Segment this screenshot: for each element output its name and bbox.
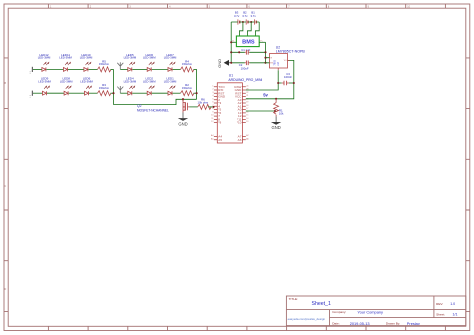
svg-text:VO: VO <box>284 60 287 62</box>
U1 left pin numbers <box>211 85 214 140</box>
svg-text:LED-3MM: LED-3MM <box>124 79 137 83</box>
svg-text:150ohm: 150ohm <box>99 86 110 90</box>
title block <box>286 296 465 326</box>
wire battery row <box>231 21 259 23</box>
svg-text:Your Company: Your Company <box>357 309 383 314</box>
wire <box>47 92 64 94</box>
wire 5v rail <box>246 60 294 98</box>
svg-text:D: D <box>5 288 7 291</box>
junction at pin <box>213 106 215 108</box>
U1 right pin labels <box>234 85 242 142</box>
svg-text:100uF: 100uF <box>241 66 249 70</box>
resistor R2 <box>181 91 195 96</box>
svg-text:TITLE:: TITLE: <box>289 297 298 301</box>
wire <box>152 68 168 70</box>
BMS pin B- <box>231 41 236 43</box>
wire <box>68 68 84 70</box>
resistor R1 <box>274 99 279 117</box>
svg-text:Preslav: Preslav <box>407 321 420 326</box>
svg-text:Company:: Company: <box>332 310 346 314</box>
svg-text:Date:: Date: <box>332 322 340 326</box>
svg-text:LED-3MM: LED-3MM <box>124 56 137 60</box>
U1 left pin labels <box>218 85 226 142</box>
ground flag left <box>217 59 231 68</box>
svg-text:B-: B- <box>232 41 234 43</box>
svg-text:1/1: 1/1 <box>453 312 458 316</box>
svg-text:150ohm: 150ohm <box>99 62 110 66</box>
wire battery minus down <box>230 22 232 63</box>
U1 left pins <box>214 87 217 140</box>
wire <box>289 82 294 84</box>
wire <box>111 68 114 70</box>
wire <box>208 106 214 108</box>
svg-text:LED-3MM: LED-3MM <box>80 79 93 83</box>
svg-text:MOSFET-NCHANNEL: MOSFET-NCHANNEL <box>137 109 169 113</box>
LED LED1 <box>168 86 175 96</box>
svg-text:LM: LM <box>277 62 280 65</box>
svg-text:A5: A5 <box>218 138 222 142</box>
battery B2 <box>246 19 248 24</box>
LED LED7 <box>168 62 175 72</box>
wire drain rail <box>114 99 197 104</box>
wire <box>152 92 168 94</box>
voltage regulator U2 <box>270 54 288 69</box>
svg-text:easyeda.com/preslav_design: easyeda.com/preslav_design <box>288 317 326 321</box>
junction <box>242 21 244 23</box>
junction <box>230 62 232 64</box>
junction <box>238 51 240 53</box>
U1 right pins <box>242 87 245 140</box>
svg-text:GND: GND <box>217 59 222 68</box>
junction <box>196 92 198 94</box>
resistor R4 <box>181 67 195 72</box>
wire U1 GND to U2 GND <box>246 70 278 90</box>
transistor Q2 <box>183 99 190 112</box>
LED LED12 <box>42 62 49 72</box>
battery B1 <box>255 19 257 24</box>
wire <box>69 92 85 94</box>
wire <box>231 51 265 53</box>
LED LED9 <box>43 86 50 96</box>
svg-text:LED-3MM: LED-3MM <box>143 79 156 83</box>
wire <box>132 68 147 70</box>
capacitor C2 <box>245 61 250 66</box>
svg-text:10k ohm: 10k ohm <box>198 100 209 104</box>
wire <box>111 92 114 94</box>
svg-text:LED-3MM: LED-3MM <box>143 56 156 60</box>
LED LED10 <box>84 62 91 72</box>
LED LED6 <box>147 62 154 72</box>
connector port <box>30 91 33 98</box>
junction <box>275 98 277 100</box>
junction <box>264 51 266 53</box>
LED LED5 <box>128 62 135 72</box>
svg-text:*9: *9 <box>218 121 221 125</box>
BMS module <box>236 36 259 47</box>
U1 right pin numbers <box>246 85 249 140</box>
capacitor C1 <box>245 50 250 55</box>
wire <box>278 82 282 84</box>
wire <box>132 92 147 94</box>
wire BMS out down <box>265 42 267 63</box>
svg-text:LED-3MM: LED-3MM <box>80 56 93 60</box>
battery B3 <box>238 19 240 24</box>
antenna net stub <box>117 86 123 93</box>
svg-text:LED-3MM: LED-3MM <box>164 56 177 60</box>
svg-text:ARDUINO_PRO_MINI: ARDUINO_PRO_MINI <box>228 78 262 82</box>
svg-text:Sheet_1: Sheet_1 <box>312 301 331 307</box>
svg-text:1.0: 1.0 <box>450 302 455 306</box>
svg-text:Sheet:: Sheet: <box>436 312 445 316</box>
svg-text:LED-3MM: LED-3MM <box>60 79 73 83</box>
junction <box>274 110 276 112</box>
resistor R3 <box>98 91 111 96</box>
svg-text:A6: A6 <box>238 138 242 142</box>
svg-text:3.7v: 3.7v <box>234 14 240 18</box>
U2 output pin <box>288 59 290 61</box>
capacitor C3 <box>282 81 289 85</box>
connector port <box>30 67 33 74</box>
junction <box>250 21 252 23</box>
wire <box>194 68 197 70</box>
LED LED2 <box>147 86 154 96</box>
svg-text:*10: *10 <box>237 121 242 125</box>
wire <box>173 68 181 70</box>
junction <box>293 82 295 84</box>
LED LED8 <box>64 86 71 96</box>
resistor R5 <box>98 67 111 72</box>
wire <box>173 92 181 94</box>
wire <box>46 68 63 70</box>
LED LED11 <box>64 62 71 72</box>
ground <box>271 116 281 130</box>
wire A0 to R1 <box>246 110 276 112</box>
svg-text:REV:: REV: <box>436 302 443 306</box>
LED LED4 <box>128 86 135 96</box>
svg-text:C: C <box>5 185 7 188</box>
wire <box>89 92 98 94</box>
svg-text:2019-05-13: 2019-05-13 <box>350 321 370 326</box>
svg-text:150ohm: 150ohm <box>182 86 193 90</box>
wire <box>194 92 197 94</box>
wire battery taps to BMS <box>239 22 259 36</box>
BMS pin P+ <box>259 41 265 43</box>
junction <box>264 62 266 64</box>
svg-text:100nF: 100nF <box>284 75 292 79</box>
svg-text:3.7v: 3.7v <box>242 14 248 18</box>
junction <box>112 92 114 94</box>
svg-text:Drawn By:: Drawn By: <box>386 322 400 326</box>
wire <box>88 68 97 70</box>
svg-text:BMS: BMS <box>242 40 255 46</box>
U2 bottom pin <box>277 68 279 70</box>
svg-text:LED-3MM: LED-3MM <box>38 56 51 60</box>
svg-text:10k: 10k <box>279 112 284 116</box>
svg-text:GND: GND <box>271 125 280 130</box>
svg-text:LED-3MM: LED-3MM <box>38 79 51 83</box>
junction <box>264 57 266 59</box>
wire cluster1 join vertical <box>113 69 115 104</box>
wire <box>33 92 42 94</box>
junction <box>277 82 279 84</box>
svg-text:U1: U1 <box>229 73 233 77</box>
svg-text:5v: 5v <box>263 93 268 98</box>
wire <box>231 62 265 64</box>
U2 input pin wires <box>266 58 270 63</box>
junction drain node <box>182 98 184 100</box>
svg-text:C1 1uF: C1 1uF <box>241 48 250 52</box>
wire <box>120 68 127 70</box>
wire <box>33 68 42 70</box>
wire gate to R6 <box>190 106 198 108</box>
junction <box>230 41 232 43</box>
resistor R6 <box>198 104 212 109</box>
junction <box>230 51 232 53</box>
wire <box>120 92 127 94</box>
ground <box>178 113 188 127</box>
svg-text:LED-3MM: LED-3MM <box>59 56 72 60</box>
IC U1 body <box>217 83 242 143</box>
svg-text:3.7v: 3.7v <box>250 14 256 18</box>
svg-text:LED-3MM: LED-3MM <box>164 79 177 83</box>
svg-text:GND: GND <box>178 121 187 126</box>
svg-text:150ohm: 150ohm <box>182 62 193 66</box>
antenna net stub <box>117 62 123 69</box>
wire cluster2 join vertical <box>196 69 198 99</box>
LED LED6 <box>85 86 92 96</box>
svg-text:LM7805CT-NOPB: LM7805CT-NOPB <box>276 50 306 54</box>
